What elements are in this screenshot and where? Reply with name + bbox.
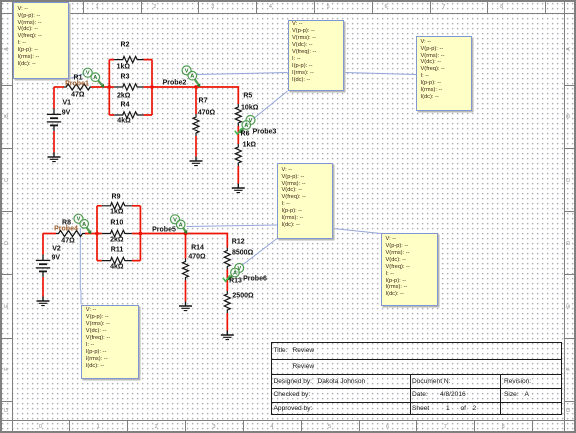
value label R14 470ohm — [188, 254, 205, 261]
left ruler zone ticks — [2, 85, 12, 86]
wire parallel block 2 left rail — [96, 206, 98, 261]
label R14 refdes — [191, 244, 204, 251]
ground below R7 — [190, 157, 203, 166]
resistor R1 47ohm horizontal — [64, 84, 93, 90]
probe Probe1 voltage-current probe — [83, 68, 104, 88]
wire node F down to R14 — [185, 234, 187, 259]
title block Date label — [412, 391, 428, 398]
title block Approved-by label — [274, 405, 313, 412]
callout leader line probe3 to info box 2 — [253, 91, 288, 120]
resistor R4 4kohm with branch leads — [109, 112, 152, 118]
probe Probe4 voltage-current probe — [74, 214, 91, 234]
resistor R8 47ohm horizontal — [56, 231, 85, 237]
probe info box 5 (Probe6 readout) — [381, 233, 438, 306]
title block Sheet total 2 — [473, 405, 477, 412]
wire V1 to R1 — [54, 86, 64, 88]
svg-text:A: A — [244, 123, 248, 129]
label V2 refdes — [52, 245, 61, 252]
right ruler zone letters — [566, 47, 572, 51]
resistor R7 470ohm vertical — [193, 114, 199, 136]
wire parallel block 2 right rail — [139, 206, 141, 261]
callout leader line probe6 to info box 4 — [243, 239, 277, 265]
wire R13 to ground — [226, 313, 228, 331]
wire node C down to R7 — [195, 87, 197, 114]
wire node B to corner and down to R5 — [152, 87, 238, 104]
title block Designed-by label — [274, 378, 313, 385]
wire V1 battery to ground — [53, 131, 55, 153]
value label R7 470ohm — [198, 110, 215, 117]
svg-text:A: A — [93, 75, 97, 81]
label Probe4 name (selected) — [54, 226, 78, 233]
probe info box 3 (Probe3 readout) — [416, 36, 472, 111]
label R6 refdes — [241, 131, 250, 138]
wire R12 to probe6 node — [226, 270, 228, 292]
node A junction dot — [107, 85, 111, 89]
resistor R12 8500ohm vertical — [224, 248, 230, 270]
label R9 refdes — [112, 193, 121, 200]
wire parallel block 1 left rail — [108, 60, 110, 115]
resistor R6 1kohm vertical — [235, 144, 241, 166]
label R5 refdes — [243, 93, 252, 100]
title block Description value Review — [293, 363, 315, 370]
ground below R14 — [179, 302, 192, 311]
title block Revision label — [504, 378, 531, 385]
ground below R13 — [221, 331, 234, 340]
left ruler zone letters — [4, 47, 10, 51]
probe Probe5 voltage-current probe — [171, 215, 188, 234]
callout leader line probe5 to info box 4 — [187, 225, 278, 227]
value label R6 1kohm — [243, 142, 256, 149]
title block Sheet label — [412, 405, 429, 412]
border inner line bottom ruler — [0, 420, 576, 421]
resistor R2 1kohm with branch leads — [109, 56, 152, 62]
resistor R5 10kohm vertical — [235, 104, 241, 126]
title block Sheet of label — [461, 405, 467, 412]
resistor R10 2kohm with branch leads — [97, 230, 140, 236]
label R11 refdes — [111, 246, 123, 253]
label Probe5 name — [152, 226, 176, 233]
label R13 refdes — [229, 278, 242, 285]
label R2 refdes — [121, 42, 130, 49]
title block Checked-by label — [274, 391, 311, 398]
wire R14 to ground — [185, 281, 187, 302]
value label V2 9V — [52, 255, 61, 262]
wire main to V1 battery — [53, 87, 55, 109]
probe Probe2 voltage-current probe — [182, 66, 200, 87]
value label R3 2kohm — [117, 92, 130, 99]
right ruler zone ticks — [564, 85, 574, 86]
svg-text:A: A — [190, 74, 194, 80]
title block Document-N label — [412, 378, 450, 385]
title block Size label — [504, 391, 519, 398]
wire R1 to node A — [91, 86, 109, 88]
border inner line left ruler — [12, 0, 13, 433]
bottom ruler zone numbers — [39, 424, 42, 430]
probe Probe3 voltage-current probe — [235, 116, 255, 135]
value label R4 4kohm — [117, 118, 130, 125]
title block Size value A — [525, 391, 529, 398]
title block Title value Review — [293, 347, 315, 354]
label R8 refdes — [62, 220, 71, 227]
wire node E to corner and down to R12 — [140, 234, 227, 248]
label Probe3 name — [253, 129, 277, 136]
title block Designed-by value — [318, 378, 366, 385]
value label R10 2kohm — [110, 237, 123, 244]
value label V1 9V — [62, 109, 71, 116]
wire parallel block 1 right rail — [151, 60, 153, 115]
probe info box 4 (Probe5 readout) — [277, 163, 333, 238]
value label R2 1kohm — [117, 63, 130, 70]
label Probe1 name (selected) — [65, 80, 89, 87]
node E junction dot — [139, 232, 143, 236]
wire R8 to node D — [85, 233, 97, 235]
ground below R6 — [232, 184, 245, 193]
label R3 refdes — [121, 74, 130, 81]
wire R5 to probe3 node — [237, 126, 239, 144]
probe info box 2 (Probe2 readout) — [288, 20, 344, 91]
value label R8 47ohm — [61, 238, 74, 245]
callout leader line probe1 to info box 1 — [70, 73, 86, 79]
value label R13 2500ohm — [232, 292, 253, 299]
probe info box 6 (Probe4 readout) — [81, 305, 139, 379]
label R1 refdes — [74, 74, 83, 81]
svg-text:A: A — [179, 222, 183, 228]
value label R9 1kohm — [110, 209, 123, 216]
bottom ruler zone ticks — [12, 420, 13, 431]
resistor R14 470ohm vertical — [183, 259, 189, 281]
callout leader line probe2 to info box 2 — [196, 73, 288, 75]
callout leader line info box 4 to info box 5 — [333, 229, 381, 234]
title block Title label — [274, 347, 288, 354]
label V1 refdes — [63, 99, 72, 106]
resistor R3 2kohm with branch leads — [109, 84, 152, 90]
title block Date value — [440, 391, 466, 398]
wire V2 battery to ground — [42, 277, 44, 297]
wire V2 to R8 — [43, 233, 56, 235]
wire main to V2 battery — [42, 234, 44, 255]
border inner line top ruler — [0, 13, 576, 14]
top ruler zone numbers — [38, 4, 41, 10]
probe Probe6 voltage-current probe — [223, 264, 244, 282]
value label R12 8500ohm — [232, 250, 253, 257]
border inner line right ruler — [564, 0, 565, 433]
node F junction dot R14 tee — [184, 232, 188, 236]
wire R7 to ground — [195, 136, 197, 157]
value label R1 47ohm — [71, 91, 84, 98]
ground below V2 — [37, 297, 50, 306]
title block frame — [271, 342, 562, 415]
title block Sheet number 1 — [446, 405, 450, 412]
label R12 refdes — [232, 239, 245, 246]
label Probe6 name — [243, 275, 267, 282]
node D junction dot — [95, 232, 99, 236]
label R7 refdes — [199, 97, 208, 104]
label R10 refdes — [110, 220, 123, 227]
voltage source V2 9V battery — [36, 255, 50, 277]
resistor R13 2500ohm vertical — [224, 291, 230, 313]
label R4 refdes — [121, 101, 130, 108]
voltage source V1 9V battery — [47, 109, 61, 131]
value label R11 4kohm — [110, 263, 123, 270]
top ruler zone ticks — [25, 2, 26, 13]
ground below V1 — [48, 153, 61, 162]
probe info box 1 (Probe1 readout) — [13, 2, 69, 79]
resistor R11 4kohm with branch leads — [97, 257, 140, 263]
node B junction dot — [150, 85, 154, 89]
value label R5 10kohm — [241, 104, 258, 111]
callout leader line info box 2 to info box 3 — [344, 73, 417, 75]
svg-text:A: A — [82, 222, 86, 228]
callout leader line probe4 to info box 6 — [79, 228, 82, 305]
resistor R9 1kohm with branch leads — [97, 203, 140, 209]
label Probe2 name — [163, 80, 187, 87]
svg-text:A: A — [233, 271, 237, 277]
wire R6 to ground — [237, 166, 239, 184]
svg-text:V: V — [86, 71, 90, 77]
node C junction dot R7 tee — [194, 85, 198, 89]
